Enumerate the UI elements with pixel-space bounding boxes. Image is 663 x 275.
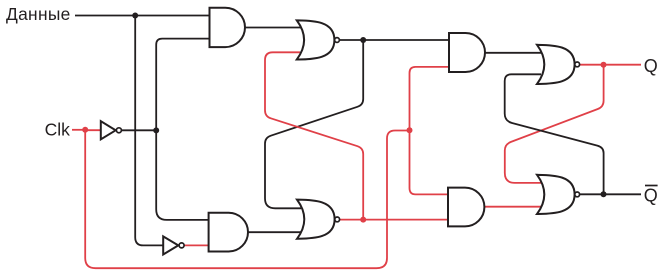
wire cross-coupling NOR3 output up to NOR1 bottom input (red) xyxy=(265,52,363,219)
svg-text:Q: Q xyxy=(644,56,658,76)
wire INV1 output to junction xyxy=(122,129,156,131)
wire AND1 output to NOR1 top input xyxy=(245,27,301,29)
wire NOR4 output to Q̄ (black) xyxy=(580,193,641,195)
svg-text:Данные: Данные xyxy=(6,4,71,24)
wire NOR1 output to AND2 top input xyxy=(340,39,450,41)
wire AND4 output to NOR4 bottom input (red) xyxy=(484,206,541,208)
wire NOR3 output to AND4 bottom input (red) xyxy=(340,219,449,221)
node ~Clk junction xyxy=(153,127,159,133)
wire Данные input to AND1 top input xyxy=(75,15,211,17)
and-gate AND1 xyxy=(210,8,245,47)
wire NOR2 output to Q (red) xyxy=(580,64,641,66)
node Q̄ junction (black) xyxy=(601,191,607,197)
node Q junction (red) xyxy=(601,62,607,68)
wire Clk up to AND2 bottom input (red) xyxy=(410,67,451,130)
wire Clk label to junction (red) xyxy=(72,129,85,131)
wire cross-coupling Q̄ up to NOR2 bottom input (black) xyxy=(505,74,604,194)
nor-gate NOR2 xyxy=(537,45,580,84)
wire ~Clk down to AND3 top input xyxy=(156,130,209,220)
wire INV2 output to AND3 bottom input (red) xyxy=(184,244,209,246)
wire cross-coupling NOR1 output down to NOR3 top input (black) xyxy=(265,40,363,208)
wire Clk down to AND4 top input (red) xyxy=(410,130,450,194)
wire Clk junction to inverter INV1 input (red) xyxy=(85,129,101,131)
wire Clk red loop: down, along bottom rail, up to middle junction xyxy=(85,130,409,268)
inverter INV1 (Clk) xyxy=(101,121,122,139)
node label Q̄ overline xyxy=(645,185,658,187)
and-gate AND2 xyxy=(449,33,485,72)
wire Данные vertical down to inverter INV2 input xyxy=(135,16,163,246)
nor-gate NOR3 xyxy=(297,200,340,239)
and-gate AND4 xyxy=(448,188,484,227)
wire cross-coupling Q down to NOR4 top input (red) xyxy=(505,65,604,183)
node Clk junction (red) xyxy=(82,127,88,133)
node junction on Данные line xyxy=(132,13,138,19)
svg-text:Clk: Clk xyxy=(45,119,71,139)
node Clk middle junction (red) xyxy=(407,127,413,133)
svg-text:Q: Q xyxy=(644,186,658,206)
node junction on NOR3 output (red) xyxy=(360,217,366,223)
nor-gate NOR4 xyxy=(537,175,580,214)
inverter INV2 (Данные) xyxy=(163,236,184,254)
and-gate AND3 xyxy=(209,213,248,252)
node junction on NOR1 output xyxy=(360,37,366,43)
nor-gate NOR1 xyxy=(297,20,340,59)
wire AND3 output to NOR3 bottom input xyxy=(248,231,301,233)
wire ~Clk up to AND1 bottom input xyxy=(156,39,210,131)
wire AND2 output to NOR2 top input xyxy=(485,52,541,54)
